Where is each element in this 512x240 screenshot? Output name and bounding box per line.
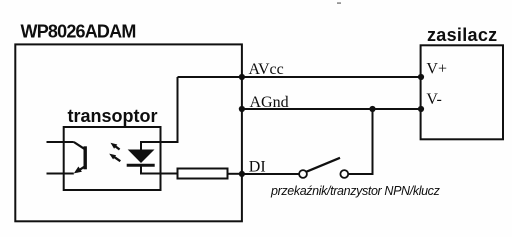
- wire collector stub: [47, 141, 74, 143]
- resistor R1: [178, 169, 228, 179]
- svg-text:zasilacz: zasilacz: [427, 25, 497, 45]
- wire LED cathode to resistor: [141, 166, 178, 174]
- wire LED anode to AVcc: [141, 77, 178, 150]
- optocoupler box transoptor: [64, 127, 161, 190]
- svg-text:WP8026ADAM: WP8026ADAM: [21, 22, 136, 42]
- svg-text:V+: V+: [426, 61, 447, 78]
- svg-text:AVcc: AVcc: [249, 61, 284, 78]
- wire AGnd: [242, 108, 421, 110]
- stray mark: [337, 2, 341, 4]
- node switch branch on AGnd: [369, 106, 375, 112]
- module box WP8026ADAM: [15, 44, 242, 221]
- svg-text:transoptor: transoptor: [68, 106, 158, 126]
- wire emitter stub: [47, 173, 74, 175]
- svg-text:AGnd: AGnd: [250, 94, 289, 111]
- svg-text:przekaźnik/tranzystor NPN/kluc: przekaźnik/tranzystor NPN/klucz: [270, 184, 441, 198]
- switch S1: [299, 158, 348, 178]
- transistor Q1 phototransistor: [74, 142, 85, 173]
- node AGnd at box edge: [239, 106, 245, 112]
- wire DI node to switch: [242, 173, 300, 175]
- wire AVcc: [178, 76, 421, 78]
- wire switch to AGnd branch: [348, 109, 373, 174]
- light arrows: [109, 143, 120, 162]
- node DI at box edge: [239, 171, 245, 177]
- node V-: [418, 106, 424, 112]
- LED D1: [127, 150, 155, 166]
- node V+: [418, 74, 424, 80]
- svg-text:DI: DI: [249, 159, 266, 176]
- node AVcc at box edge: [239, 74, 245, 80]
- wire resistor to DI node: [228, 173, 242, 175]
- svg-text:V-: V-: [426, 91, 441, 108]
- power supply box zasilacz: [421, 45, 503, 139]
